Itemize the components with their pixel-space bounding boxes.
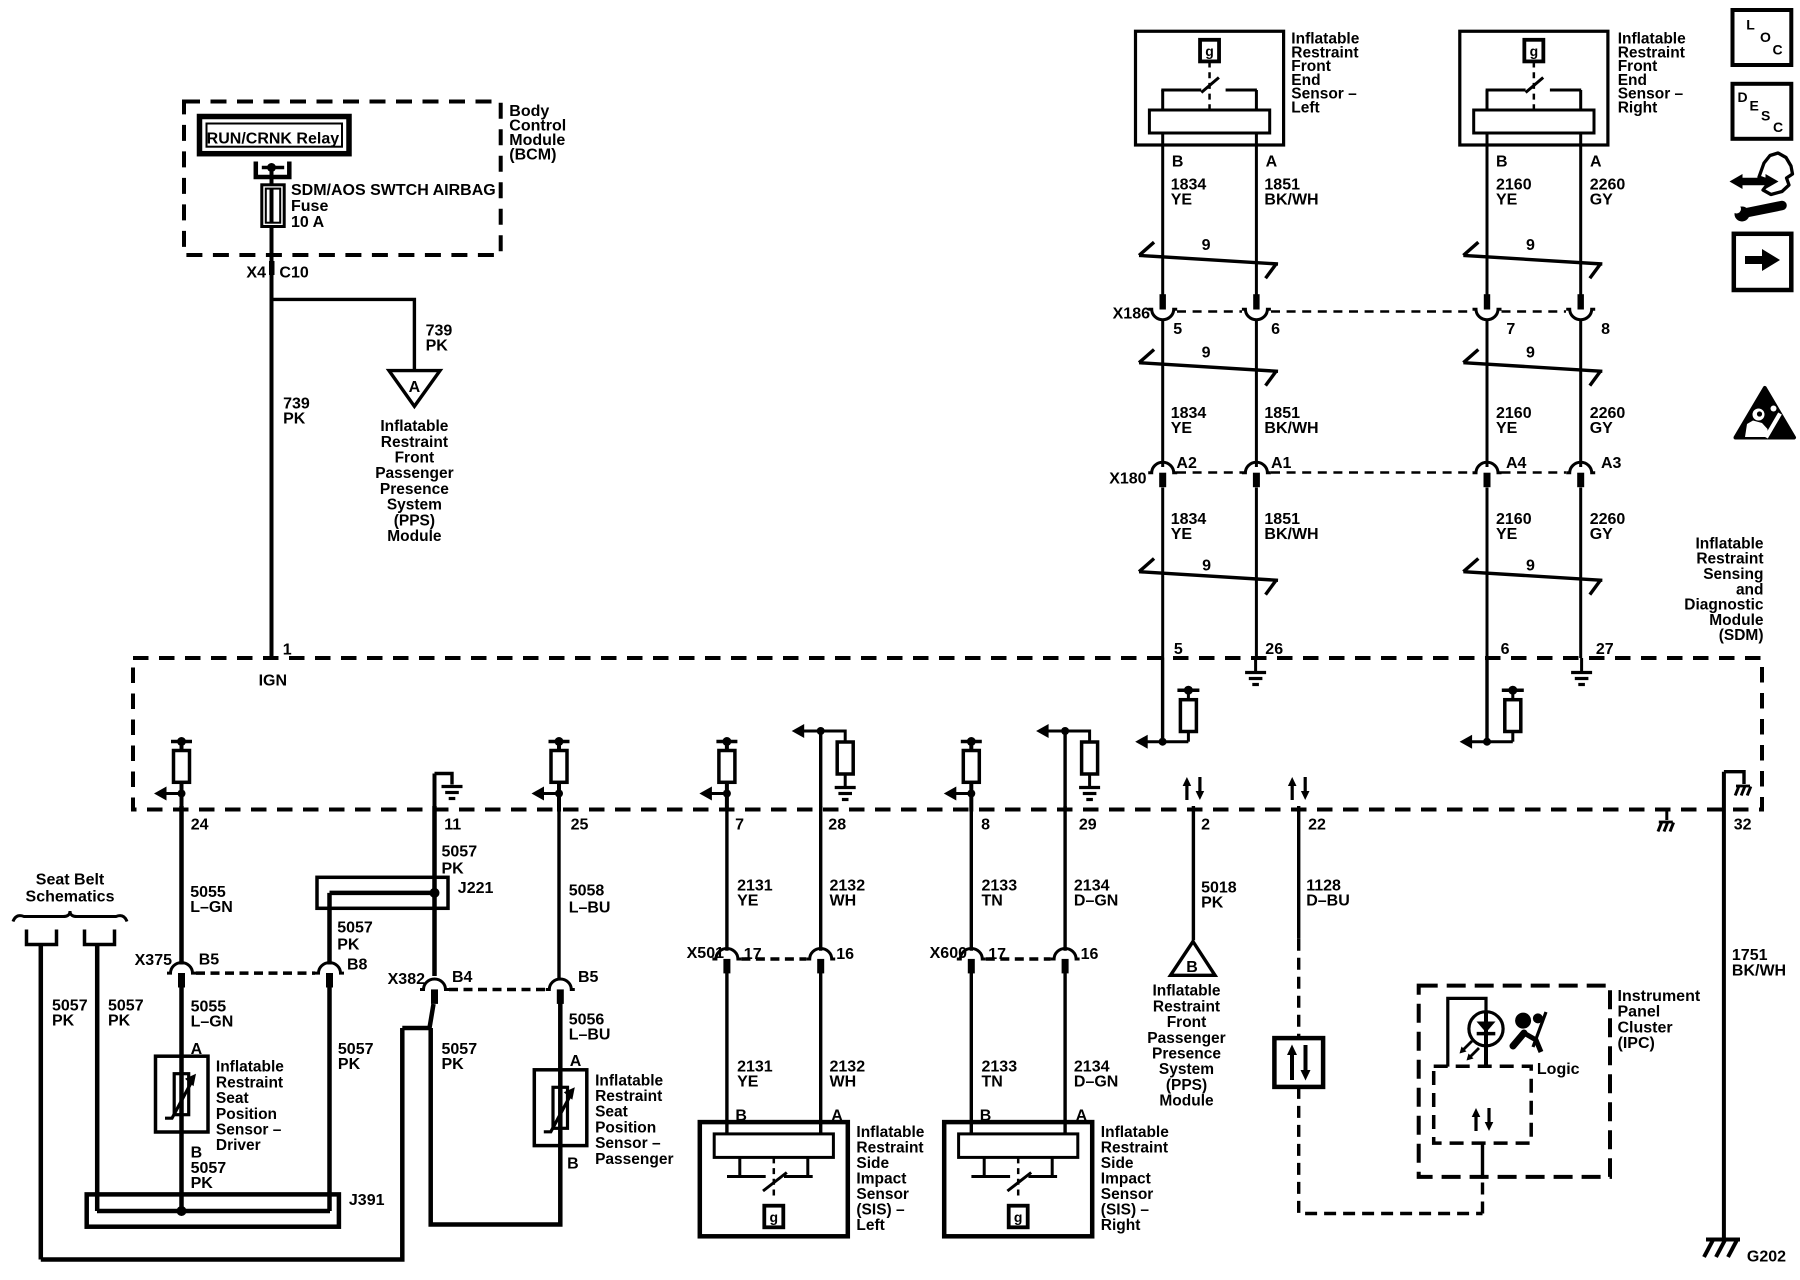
svg-text:PK: PK <box>52 1013 75 1030</box>
svg-text:PK: PK <box>283 411 306 428</box>
svg-text:IGN: IGN <box>259 673 287 690</box>
svg-text:22: 22 <box>1308 817 1326 834</box>
svg-text:TN: TN <box>982 1074 1003 1091</box>
svg-text:PK: PK <box>191 1175 214 1192</box>
svg-text:X186: X186 <box>1113 306 1150 323</box>
svg-text:YE: YE <box>1171 420 1193 437</box>
svg-text:L–BU: L–BU <box>569 1027 611 1044</box>
svg-text:(SDM): (SDM) <box>1719 627 1764 644</box>
svg-text:10 A: 10 A <box>291 214 325 231</box>
svg-text:32: 32 <box>1734 817 1752 834</box>
svg-text:Restraint: Restraint <box>856 1140 923 1157</box>
svg-text:X180: X180 <box>1109 471 1146 488</box>
svg-text:Schematics: Schematics <box>26 889 115 906</box>
svg-text:J391: J391 <box>349 1192 385 1209</box>
svg-text:Seat: Seat <box>595 1104 628 1121</box>
svg-text:Module: Module <box>1159 1093 1214 1110</box>
svg-text:YE: YE <box>1496 526 1518 543</box>
svg-text:Front: Front <box>1167 1014 1207 1031</box>
svg-text:YE: YE <box>1171 191 1193 208</box>
svg-text:Side: Side <box>856 1155 889 1172</box>
svg-text:Passenger: Passenger <box>595 1151 673 1168</box>
svg-text:1751: 1751 <box>1732 947 1768 964</box>
svg-text:A: A <box>409 379 421 396</box>
svg-text:RUN/CRNK Relay: RUN/CRNK Relay <box>207 131 340 148</box>
svg-text:L: L <box>1746 16 1755 32</box>
svg-text:A4: A4 <box>1506 455 1527 472</box>
svg-text:B: B <box>1186 959 1198 976</box>
svg-text:Instrument: Instrument <box>1618 988 1701 1005</box>
svg-text:L–GN: L–GN <box>190 899 233 916</box>
svg-text:YE: YE <box>1171 526 1193 543</box>
svg-text:System: System <box>387 497 442 514</box>
svg-text:PK: PK <box>337 937 360 954</box>
svg-text:YE: YE <box>1496 191 1518 208</box>
svg-text:9: 9 <box>1526 237 1535 254</box>
svg-text:17: 17 <box>744 946 762 963</box>
svg-text:9: 9 <box>1202 237 1211 254</box>
svg-text:2: 2 <box>1201 817 1210 834</box>
svg-text:Impact: Impact <box>1101 1171 1151 1188</box>
svg-text:YE: YE <box>1496 420 1518 437</box>
svg-text:Left: Left <box>856 1217 884 1234</box>
svg-text:X382: X382 <box>388 971 425 988</box>
svg-text:YE: YE <box>737 1074 759 1091</box>
svg-text:D–GN: D–GN <box>1074 892 1118 909</box>
svg-text:9: 9 <box>1202 345 1211 362</box>
svg-text:System: System <box>1159 1061 1214 1078</box>
svg-text:Logic: Logic <box>1537 1061 1580 1078</box>
svg-text:Inflatable: Inflatable <box>216 1059 284 1076</box>
svg-text:Fuse: Fuse <box>291 198 328 215</box>
svg-text:A3: A3 <box>1601 455 1622 472</box>
svg-text:16: 16 <box>836 946 854 963</box>
svg-text:O: O <box>1760 29 1771 45</box>
svg-text:G202: G202 <box>1747 1249 1786 1266</box>
svg-text:Restraint: Restraint <box>216 1074 283 1091</box>
svg-text:26: 26 <box>1265 641 1283 658</box>
svg-text:GY: GY <box>1590 526 1613 543</box>
svg-text:(SIS) –: (SIS) – <box>1101 1202 1150 1219</box>
svg-text:(IPC): (IPC) <box>1618 1035 1655 1052</box>
svg-text:Seat Belt: Seat Belt <box>36 872 105 889</box>
svg-text:Sensor –: Sensor – <box>216 1122 282 1139</box>
svg-text:Panel: Panel <box>1618 1004 1661 1021</box>
svg-text:BK/WH: BK/WH <box>1264 526 1318 543</box>
svg-text:Inflatable: Inflatable <box>856 1124 924 1141</box>
svg-text:Driver: Driver <box>216 1137 261 1154</box>
svg-text:Side: Side <box>1101 1155 1134 1172</box>
svg-text:PK: PK <box>108 1013 131 1030</box>
svg-text:WH: WH <box>830 1074 857 1091</box>
svg-text:(BCM): (BCM) <box>509 147 556 164</box>
svg-text:25: 25 <box>571 817 589 834</box>
svg-text:L–GN: L–GN <box>191 1013 234 1030</box>
svg-text:Restraint: Restraint <box>381 434 448 451</box>
svg-text:Impact: Impact <box>856 1171 906 1188</box>
svg-text:A1: A1 <box>1271 455 1292 472</box>
svg-text:6: 6 <box>1271 321 1280 338</box>
svg-text:Passenger: Passenger <box>1147 1030 1225 1047</box>
svg-text:8: 8 <box>1601 321 1610 338</box>
svg-text:9: 9 <box>1526 345 1535 362</box>
svg-text:8: 8 <box>981 817 990 834</box>
svg-text:Presence: Presence <box>1152 1046 1221 1063</box>
svg-text:A2: A2 <box>1176 455 1197 472</box>
svg-text:X4: X4 <box>246 264 266 281</box>
svg-text:6: 6 <box>1501 641 1510 658</box>
svg-text:7: 7 <box>735 817 744 834</box>
svg-text:X600: X600 <box>930 945 967 962</box>
svg-text:C: C <box>1773 119 1783 135</box>
svg-text:Passenger: Passenger <box>375 465 453 482</box>
svg-text:B8: B8 <box>347 957 368 974</box>
svg-text:PK: PK <box>442 1056 465 1073</box>
svg-text:Seat: Seat <box>216 1090 249 1107</box>
svg-text:BK/WH: BK/WH <box>1264 191 1318 208</box>
svg-text:Sensor: Sensor <box>856 1186 909 1203</box>
svg-text:Inflatable: Inflatable <box>1152 983 1220 1000</box>
svg-text:Inflatable: Inflatable <box>595 1072 663 1089</box>
svg-text:(PPS): (PPS) <box>394 512 435 529</box>
svg-text:PK: PK <box>338 1056 361 1073</box>
svg-text:BK/WH: BK/WH <box>1732 963 1786 980</box>
svg-text:PK: PK <box>426 338 449 355</box>
svg-text:B: B <box>191 1144 203 1161</box>
svg-text:5058: 5058 <box>569 883 605 900</box>
svg-text:J221: J221 <box>458 880 494 897</box>
svg-text:WH: WH <box>830 892 857 909</box>
svg-text:YE: YE <box>737 892 759 909</box>
svg-text:5057: 5057 <box>442 844 478 861</box>
svg-text:16: 16 <box>1081 946 1099 963</box>
svg-text:Position: Position <box>595 1119 656 1136</box>
svg-text:5057: 5057 <box>337 920 373 937</box>
svg-text:1: 1 <box>283 642 292 659</box>
svg-text:E: E <box>1750 98 1759 114</box>
svg-text:5: 5 <box>1174 641 1183 658</box>
svg-text:C: C <box>1773 41 1783 57</box>
svg-text:Restraint: Restraint <box>595 1088 662 1105</box>
svg-text:D–GN: D–GN <box>1074 1074 1118 1091</box>
svg-text:7: 7 <box>1506 321 1515 338</box>
svg-text:9: 9 <box>1526 558 1535 575</box>
svg-text:B5: B5 <box>578 969 599 986</box>
svg-text:B: B <box>1496 154 1508 171</box>
svg-text:Inflatable: Inflatable <box>380 418 448 435</box>
svg-text:X501: X501 <box>687 945 724 962</box>
svg-text:B4: B4 <box>452 969 473 986</box>
svg-text:D: D <box>1738 89 1748 105</box>
svg-text:(PPS): (PPS) <box>1166 1077 1207 1094</box>
svg-text:28: 28 <box>828 817 846 834</box>
svg-text:Cluster: Cluster <box>1618 1019 1673 1036</box>
svg-text:GY: GY <box>1590 191 1613 208</box>
svg-text:A: A <box>570 1053 582 1070</box>
svg-text:Right: Right <box>1101 1217 1141 1234</box>
svg-text:TN: TN <box>982 892 1003 909</box>
svg-text:BK/WH: BK/WH <box>1264 420 1318 437</box>
svg-text:PK: PK <box>1201 894 1224 911</box>
svg-text:11: 11 <box>444 817 461 834</box>
svg-text:L–BU: L–BU <box>569 900 611 917</box>
svg-text:A: A <box>1266 154 1278 171</box>
svg-text:Module: Module <box>387 528 442 545</box>
svg-text:D–BU: D–BU <box>1306 892 1350 909</box>
svg-text:(SIS) –: (SIS) – <box>856 1202 905 1219</box>
svg-text:27: 27 <box>1596 641 1614 658</box>
svg-text:B: B <box>567 1156 579 1173</box>
svg-text:B: B <box>1172 154 1184 171</box>
svg-text:Left: Left <box>1291 99 1319 116</box>
svg-text:SDM/AOS SWTCH AIRBAG: SDM/AOS SWTCH AIRBAG <box>291 182 496 199</box>
svg-text:Inflatable: Inflatable <box>1101 1124 1169 1141</box>
svg-text:Position: Position <box>216 1106 277 1123</box>
svg-text:Restraint: Restraint <box>1153 998 1220 1015</box>
svg-text:Sensor: Sensor <box>1101 1186 1154 1203</box>
svg-text:X375: X375 <box>135 952 172 969</box>
svg-text:9: 9 <box>1202 558 1211 575</box>
svg-text:5: 5 <box>1173 321 1182 338</box>
svg-text:29: 29 <box>1079 817 1097 834</box>
svg-text:GY: GY <box>1590 420 1613 437</box>
svg-text:S: S <box>1761 108 1770 124</box>
svg-text:Presence: Presence <box>380 481 449 498</box>
svg-text:A: A <box>1590 154 1602 171</box>
svg-text:PK: PK <box>442 861 465 878</box>
svg-text:Right: Right <box>1618 99 1658 116</box>
svg-text:Sensor –: Sensor – <box>595 1135 661 1152</box>
svg-text:B5: B5 <box>199 952 220 969</box>
svg-text:C10: C10 <box>279 264 308 281</box>
svg-text:24: 24 <box>191 817 209 834</box>
svg-text:Front: Front <box>395 450 435 467</box>
svg-text:Restraint: Restraint <box>1101 1140 1168 1157</box>
svg-text:17: 17 <box>988 946 1006 963</box>
